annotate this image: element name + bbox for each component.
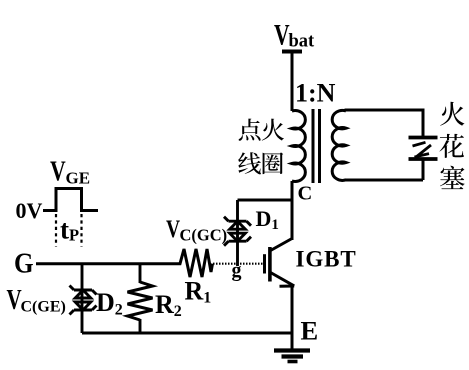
spark plug bottom plate — [409, 157, 438, 161]
svg-text:E: E — [301, 316, 319, 346]
zener D1 — [224, 217, 251, 246]
zener D2 — [70, 286, 97, 315]
wire Vbat stem — [291, 52, 294, 111]
label 火 (spark plug) — [440, 102, 464, 126]
label 线 — [238, 152, 261, 174]
inductor primary winding (ignition coil) — [292, 111, 305, 182]
wire secondary bottom — [345, 179, 424, 182]
svg-text:0V: 0V — [16, 198, 43, 223]
label 火 — [262, 119, 284, 141]
IGBT emitter diagonal — [271, 273, 295, 286]
svg-text:G: G — [14, 247, 34, 279]
svg-text:GE: GE — [66, 168, 91, 187]
label 点 (ignition coil) — [239, 119, 261, 141]
Vbat terminal bar — [282, 50, 302, 54]
VGE pulse waveform — [43, 189, 98, 211]
wire secondary top — [345, 110, 424, 137]
VGE pulse dashed markers — [56, 214, 82, 247]
svg-text:C: C — [298, 183, 313, 205]
wire G input — [36, 262, 176, 265]
label 圈 — [263, 152, 284, 174]
svg-text:IGBT: IGBT — [296, 247, 357, 272]
IGBT collector diagonal — [271, 239, 293, 251]
svg-text:g: g — [232, 260, 242, 282]
svg-text:V: V — [274, 18, 290, 51]
svg-text:1:N: 1:N — [295, 79, 336, 108]
svg-text:C(GC): C(GC) — [180, 226, 228, 245]
wire R2 leads — [139, 264, 142, 333]
ground — [274, 348, 310, 352]
IGBT emitter arrowhead barb — [280, 285, 295, 288]
spark plug top plate — [409, 136, 438, 140]
wire D1 top tee — [238, 199, 293, 202]
svg-text:V: V — [50, 155, 66, 188]
wire dotted gate segment — [213, 263, 263, 265]
wire emitter vertical — [291, 284, 294, 350]
wire D1 branch — [236, 200, 239, 266]
svg-text:V: V — [7, 285, 22, 316]
svg-text:C(GE): C(GE) — [21, 299, 66, 316]
wire bottom rail — [82, 332, 292, 335]
wire collector node line — [291, 181, 294, 240]
spark plug gap lightning — [413, 142, 432, 158]
IGBT body bar — [268, 247, 272, 282]
inductor secondary winding — [332, 110, 346, 180]
svg-text:V: V — [166, 215, 180, 243]
wire spark plug bottom lead — [422, 161, 425, 181]
label 塞 — [440, 166, 465, 189]
label 花 — [439, 134, 464, 158]
IGBT gate bar — [263, 254, 266, 273]
resistor R1 zigzag — [176, 249, 213, 277]
svg-text:bat: bat — [289, 31, 316, 51]
wire D2 branch — [81, 264, 84, 333]
transformer core — [313, 109, 320, 183]
resistor R2 zigzag — [128, 282, 153, 320]
